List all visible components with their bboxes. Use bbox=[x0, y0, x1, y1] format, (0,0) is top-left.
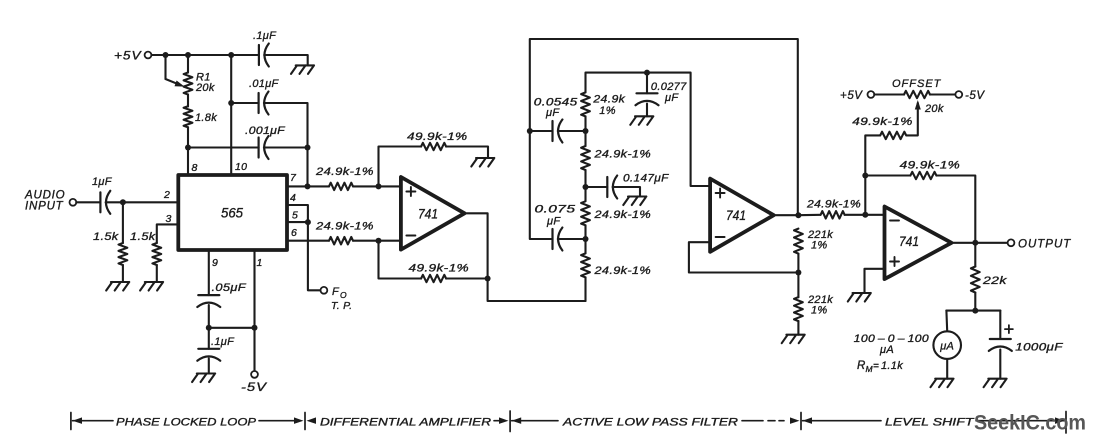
node pin2 junction bbox=[120, 199, 126, 205]
resistor 24.9k ladder 2 bbox=[581, 146, 590, 170]
resistor 24.9k upper bbox=[329, 183, 353, 190]
svg-text:49.9k-1%: 49.9k-1% bbox=[900, 160, 960, 172]
wire - input to 49.9k fb bbox=[379, 241, 422, 279]
svg-text:1.5k: 1.5k bbox=[130, 231, 156, 243]
resistor 221k upper bbox=[794, 229, 803, 254]
wire to C 0.147 bbox=[586, 186, 608, 188]
section divider tick 2 bbox=[304, 413, 306, 430]
svg-text:.001μF: .001μF bbox=[245, 125, 286, 137]
wire ladder seg 1 bbox=[584, 116, 586, 146]
ground at 1.5k second bbox=[140, 282, 163, 291]
wire pin 8 bbox=[187, 148, 189, 176]
node 0.0545 left junction bbox=[527, 128, 533, 134]
wire pot to -5V bbox=[930, 93, 956, 95]
svg-text:OUTPUT: OUTPUT bbox=[1018, 239, 1071, 251]
ground at 0.147uF bbox=[623, 197, 646, 206]
capacitor .001uF bbox=[258, 138, 260, 158]
section divider tick 4 bbox=[800, 413, 802, 430]
wire 24.9k lower to opamp bbox=[353, 240, 401, 242]
svg-text:μF: μF bbox=[545, 107, 560, 119]
resistor 22k bbox=[971, 267, 980, 293]
wire rail to C .1uF second bbox=[208, 328, 210, 349]
wire pin 7 bbox=[287, 185, 329, 187]
svg-text:7: 7 bbox=[290, 172, 297, 184]
wire caps to pin7 node bbox=[306, 148, 308, 187]
svg-text:SeekIC.com: SeekIC.com bbox=[974, 412, 1086, 435]
wire C 0.075 right bbox=[558, 238, 586, 240]
svg-text:OFFSET: OFFSET bbox=[892, 78, 942, 90]
node ladder 0.147 junction bbox=[583, 184, 589, 190]
wire pin 9 bbox=[208, 250, 210, 295]
svg-text:9: 9 bbox=[212, 257, 218, 269]
node +5V/wiper junction bbox=[163, 52, 169, 58]
svg-text:μF: μF bbox=[664, 92, 679, 104]
svg-text:8: 8 bbox=[192, 162, 198, 174]
wire to R 1.5k first bbox=[122, 202, 124, 243]
svg-text:1.5k: 1.5k bbox=[93, 231, 119, 243]
wire output to 22k bbox=[974, 243, 976, 267]
resistor 221k lower bbox=[794, 297, 803, 321]
section arrow left ALPF bbox=[512, 417, 522, 424]
wire C 0.147 to ground bbox=[613, 187, 640, 197]
svg-text:741: 741 bbox=[418, 207, 438, 222]
node pin1 rail right bbox=[252, 325, 258, 331]
svg-text:1.1k: 1.1k bbox=[881, 360, 903, 372]
wire VCO to test point bbox=[308, 222, 321, 290]
terminal audio input bbox=[70, 199, 77, 206]
svg-text:565: 565 bbox=[221, 205, 243, 221]
wire 1.5k first to ground bbox=[122, 265, 124, 282]
wire pin 4-5 link bbox=[287, 205, 308, 222]
wire 1.5k second to ground bbox=[156, 265, 158, 282]
svg-text:1000μF: 1000μF bbox=[1015, 342, 1064, 354]
svg-text:0.147μF: 0.147μF bbox=[623, 173, 670, 185]
wire 49.9k fb to output bbox=[936, 176, 975, 243]
ground at meter bbox=[931, 379, 954, 388]
node offset/feedback junction bbox=[862, 173, 868, 179]
svg-text:24.9k-1%: 24.9k-1% bbox=[593, 265, 651, 277]
svg-text:1%: 1% bbox=[811, 305, 828, 317]
resistor 24.9k ladder 1 bbox=[581, 92, 590, 116]
svg-text:741: 741 bbox=[899, 234, 919, 249]
svg-text:.1μF: .1μF bbox=[211, 336, 235, 348]
wire to C .001uF bbox=[188, 146, 259, 148]
wire pin 10 / +5V bbox=[230, 55, 232, 175]
section divider tick 5 bbox=[1065, 412, 1067, 434]
svg-text:20k: 20k bbox=[195, 82, 215, 94]
svg-text:.01μF: .01μF bbox=[249, 78, 280, 90]
node pin7 junction bbox=[305, 183, 311, 189]
potentiometer 20k offset bbox=[904, 91, 930, 98]
wire ladder top bbox=[586, 73, 711, 186]
node opamp2 feedback junction bbox=[795, 270, 801, 276]
svg-text:PHASE LOCKED LOOP: PHASE LOCKED LOOP bbox=[116, 416, 257, 428]
wire C 0.0545 right bbox=[558, 130, 586, 132]
svg-text:4: 4 bbox=[290, 192, 296, 204]
potentiometer R1 bbox=[184, 73, 193, 95]
section line PLL left bbox=[73, 420, 114, 422]
wire to C 0.0277 bbox=[646, 73, 648, 94]
ground at 1000uF bbox=[984, 379, 1007, 388]
wire C .1uF second to ground bbox=[208, 359, 210, 374]
wire meter rail bbox=[946, 310, 1000, 312]
node ladder 0.0545 junction bbox=[583, 128, 589, 134]
wire +5V to pot bbox=[874, 93, 904, 95]
wire + input to 49.9k bbox=[379, 147, 422, 187]
meter M1 microammeter bbox=[933, 331, 961, 359]
svg-text:24.9k-1%: 24.9k-1% bbox=[806, 198, 861, 210]
wire node to 49.9k fb bbox=[865, 174, 910, 176]
wire C .05uF bottom bbox=[208, 305, 210, 328]
wire opamp2 out to 24.9k bbox=[798, 214, 820, 216]
wiper arrowhead of offset pot bbox=[915, 100, 921, 110]
wire opamp1 output bbox=[465, 213, 586, 301]
capacitor .1uF second bbox=[198, 348, 219, 350]
wire R1-1.8k bbox=[187, 95, 189, 107]
section line LS right bbox=[976, 420, 1064, 422]
wire 22k to meter rail bbox=[974, 293, 976, 311]
svg-text:INPUT: INPUT bbox=[25, 201, 64, 213]
wire opamp3 output bbox=[952, 242, 1008, 244]
svg-text:1%: 1% bbox=[811, 240, 828, 252]
section arrow right LS bbox=[1055, 417, 1065, 424]
section arrow right PLL bbox=[294, 417, 304, 424]
resistor 49.9k feedback ls bbox=[910, 172, 936, 179]
section divider tick 3 bbox=[509, 411, 511, 432]
wire to C .1uF bbox=[231, 54, 259, 56]
svg-text:20k: 20k bbox=[924, 103, 944, 115]
wire C 0.0277 to ground bbox=[646, 104, 648, 117]
node opamp2 output bbox=[795, 212, 801, 218]
wire ladder seg 3 bbox=[584, 225, 586, 253]
wire +5V rail bbox=[151, 54, 259, 56]
svg-text:+5V: +5V bbox=[114, 51, 142, 63]
section line PLL right bbox=[259, 420, 296, 422]
resistor 1.5k first bbox=[119, 243, 128, 265]
section arrow left DA bbox=[307, 417, 317, 424]
resistor 49.9k offset bbox=[880, 132, 906, 139]
capacitor .1uF bbox=[258, 45, 260, 65]
wire pin 1 to -5V bbox=[253, 250, 255, 371]
resistor 49.9k feedback bbox=[421, 275, 446, 282]
svg-text:24.9k-1%: 24.9k-1% bbox=[593, 209, 651, 221]
wire pin9 to pin1 rail bbox=[209, 327, 255, 329]
wire C .1uF to ground bbox=[264, 55, 308, 65]
capacitor 0.147uF bbox=[606, 177, 608, 197]
capacitor 1000uF bbox=[990, 338, 1011, 340]
wire C .001uF right bbox=[264, 146, 308, 148]
wire input to C 1uF bbox=[76, 201, 100, 203]
ground at .1uF bbox=[291, 65, 314, 74]
svg-text:24.9k-1%: 24.9k-1% bbox=[315, 166, 374, 178]
resistor 24.9k lower bbox=[329, 237, 353, 244]
svg-text:5: 5 bbox=[292, 210, 298, 222]
capacitor 0.0545uF bbox=[551, 121, 553, 141]
capacitor 0.0277uF bbox=[637, 92, 658, 94]
svg-text:LEVEL SHIFT: LEVEL SHIFT bbox=[885, 416, 975, 428]
ground at 0.0277uF bbox=[630, 116, 653, 125]
svg-text:μA: μA bbox=[879, 344, 894, 356]
wire ladder bottom bbox=[584, 277, 586, 301]
power terminal -5V offset bbox=[955, 91, 962, 98]
node opamp3 - junction bbox=[862, 212, 868, 218]
svg-text:3: 3 bbox=[166, 213, 172, 225]
wiper arrowhead of R1 bbox=[175, 81, 185, 87]
svg-text:μA: μA bbox=[939, 341, 954, 353]
wire to C .01uF bbox=[231, 102, 258, 104]
svg-text:6: 6 bbox=[291, 227, 297, 239]
label plus 1000uF bbox=[1005, 325, 1013, 333]
svg-text:+5V: +5V bbox=[840, 90, 863, 102]
wire 49.9k fb to output bbox=[446, 277, 488, 279]
svg-text:24.9k-1%: 24.9k-1% bbox=[315, 221, 374, 233]
ground at 49.9k top bbox=[471, 158, 494, 167]
node pin4/5 junction bbox=[305, 219, 311, 225]
wire 24.9k upper to opamp bbox=[353, 185, 401, 187]
resistor 1.8k bbox=[184, 106, 193, 127]
op-amp U3 741 low pass filter bbox=[710, 179, 774, 252]
IC U1 565 phase locked loop bbox=[178, 175, 287, 250]
section arrow left LS bbox=[803, 417, 813, 424]
wire 24.9k to opamp3 bbox=[845, 214, 885, 216]
svg-text:O: O bbox=[340, 290, 347, 300]
wire pin 5 bbox=[287, 221, 308, 223]
wire opamp3 + to ground bbox=[865, 269, 885, 293]
node .01uF left junction bbox=[228, 100, 234, 106]
node ladder 0.075 junction bbox=[583, 236, 589, 242]
svg-text:22k: 22k bbox=[982, 275, 1007, 287]
svg-text:49.9k-1%: 49.9k-1% bbox=[852, 116, 912, 128]
section arrow right DA bbox=[499, 417, 509, 424]
wire 1.8k bottom lead bbox=[187, 127, 189, 147]
svg-text:10: 10 bbox=[235, 161, 247, 173]
wire filter left branch bbox=[530, 131, 553, 239]
wire R1 top lead bbox=[187, 55, 189, 73]
svg-text:1μF: 1μF bbox=[92, 176, 113, 188]
svg-text:-5V: -5V bbox=[965, 90, 985, 102]
power terminal +5V bbox=[145, 52, 152, 59]
node +5V/pin10 junction bbox=[228, 52, 234, 58]
svg-text:2: 2 bbox=[163, 189, 170, 201]
wire R1 wiper arm bbox=[164, 55, 166, 79]
node caps junction bbox=[305, 145, 311, 151]
resistor 24.9k ladder 3 bbox=[581, 201, 590, 225]
node opamp1 + input bbox=[376, 183, 382, 189]
wire filter top feedback bbox=[530, 39, 798, 215]
wire 49.9k offset to node bbox=[865, 135, 880, 214]
resistor 24.9k level shift bbox=[821, 211, 845, 218]
wire 49.9k top to ground bbox=[446, 147, 488, 159]
svg-text:1: 1 bbox=[257, 257, 263, 269]
svg-text:R: R bbox=[857, 360, 866, 372]
wire opamp2 output bbox=[774, 214, 799, 216]
terminal F0 T.P. bbox=[321, 287, 328, 294]
svg-text:0.075: 0.075 bbox=[535, 204, 577, 216]
svg-text:F: F bbox=[332, 286, 340, 298]
section line ALPF right dashes bbox=[742, 420, 763, 422]
wire opamp2 - feedback bbox=[689, 242, 799, 272]
svg-text:24.9k: 24.9k bbox=[592, 94, 625, 106]
wire ladder seg 2 bbox=[584, 170, 586, 201]
capacitor 0.075uF bbox=[551, 229, 553, 249]
section line LS left bbox=[803, 420, 882, 422]
ground below .1uF second bbox=[192, 374, 215, 383]
wire pin 3 bbox=[157, 224, 179, 243]
op-amp U2 741 differential amplifier bbox=[401, 177, 465, 250]
node 0.0277 junction bbox=[644, 70, 650, 76]
wire 221k link bbox=[797, 254, 799, 298]
svg-text:ACTIVE LOW PASS FILTER: ACTIVE LOW PASS FILTER bbox=[562, 416, 738, 428]
ground at 221k lower bbox=[782, 335, 805, 344]
node pin8 junction bbox=[185, 145, 191, 151]
svg-text:49.9k-1%: 49.9k-1% bbox=[407, 131, 468, 143]
node opamp1 feedback bbox=[485, 276, 491, 282]
section arrow left PLL bbox=[73, 417, 83, 424]
wire pin 6 bbox=[287, 240, 329, 242]
svg-text:741: 741 bbox=[726, 208, 746, 223]
svg-text:=: = bbox=[873, 361, 879, 372]
svg-text:1.8k: 1.8k bbox=[195, 112, 217, 124]
node output junction bbox=[972, 240, 978, 246]
wire C 1uF to pin 2 bbox=[106, 201, 179, 203]
svg-text:DIFFERENTIAL AMPLIFIER: DIFFERENTIAL AMPLIFIER bbox=[320, 416, 491, 428]
wire meter to ground bbox=[946, 359, 948, 379]
svg-text:.1μF: .1μF bbox=[253, 30, 277, 42]
resistor 24.9k ladder 4 bbox=[581, 253, 590, 277]
wire 1000uF to ground bbox=[999, 350, 1001, 379]
wire 221k lower to ground bbox=[797, 321, 799, 335]
resistor 49.9k top bbox=[421, 143, 446, 150]
wire pot wiper bbox=[907, 103, 918, 135]
ground at opamp3 + bbox=[848, 293, 871, 302]
section line ALPF left bbox=[512, 420, 558, 422]
svg-text:μF: μF bbox=[546, 216, 561, 228]
section line DA right bbox=[494, 420, 500, 422]
svg-text:-5V: -5V bbox=[241, 382, 268, 394]
svg-text:24.9k-1%: 24.9k-1% bbox=[593, 149, 651, 161]
op-amp U4 741 level shift bbox=[885, 207, 952, 280]
section divider tick 1 bbox=[70, 413, 72, 430]
node pin9/pin1 rail left bbox=[206, 325, 212, 331]
node meter rail bbox=[972, 308, 978, 314]
power terminal +5V offset bbox=[868, 91, 875, 98]
section arrow right ALPF bbox=[790, 417, 800, 424]
capacitor 1uF bbox=[99, 192, 101, 212]
resistor 1.5k second bbox=[152, 243, 161, 265]
terminal -5V bbox=[251, 371, 258, 378]
svg-text:T. P.: T. P. bbox=[331, 300, 352, 312]
svg-text:49.9k-1%: 49.9k-1% bbox=[409, 263, 470, 275]
wire C .01uF right bbox=[264, 103, 308, 148]
svg-text:.05μF: .05μF bbox=[212, 282, 248, 294]
capacitor .01uF bbox=[258, 93, 260, 113]
node opamp1 - input bbox=[376, 238, 382, 244]
wire to C 0.0545 bbox=[530, 130, 553, 132]
svg-text:1%: 1% bbox=[599, 105, 616, 117]
capacitor .05uF bbox=[198, 294, 219, 296]
wire to meter bbox=[945, 311, 948, 332]
ground at 1.5k first bbox=[106, 282, 129, 291]
node +5V/R1 junction bbox=[185, 52, 191, 58]
terminal OUTPUT bbox=[1008, 239, 1015, 246]
wire to 1000uF bbox=[999, 311, 1001, 339]
